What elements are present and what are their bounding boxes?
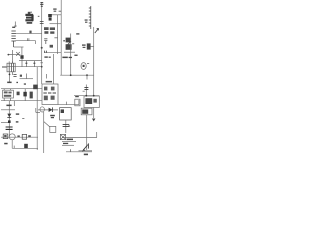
- small marks: [17, 135, 19, 137]
- junction on V1: [41, 47, 43, 49]
- wire left chain lower: [8, 101, 10, 137]
- wire V9: [86, 115, 88, 150]
- components between buses: [17, 92, 20, 96]
- wire H top small a: [49, 14, 61, 16]
- wire H-e: [14, 46, 24, 48]
- tick on V3: [59, 10, 62, 12]
- box: [22, 134, 26, 139]
- label near connector: [85, 19, 88, 22]
- dark blob component above bus: [33, 85, 38, 90]
- wire bus H-l: [1, 100, 42, 102]
- tick right end H-o: [13, 101, 15, 106]
- wire mid bus V6: [36, 67, 38, 150]
- capacitor C5 below box: [63, 124, 70, 126]
- wire H-t: [62, 141, 76, 143]
- wire V3: [60, 0, 62, 75]
- label under diode row: [50, 115, 55, 118]
- relay box K1: [3, 90, 14, 98]
- node terminal top of V1: [40, 3, 43, 7]
- component cluster top middle: label: [53, 8, 56, 11]
- tick to V2: [54, 37, 57, 39]
- bottom-left component row: box: [3, 134, 8, 139]
- box U4 mid right: [60, 108, 72, 120]
- wire stub V11: [21, 47, 23, 55]
- wire H-h: [20, 78, 34, 80]
- wire fuse line: [13, 54, 21, 56]
- SCR arrow bottom right: [82, 145, 87, 152]
- wire H winding bottom: [16, 41, 36, 44]
- wire H-j: [44, 52, 61, 54]
- wire H top small b: [50, 23, 62, 25]
- label near top-left: [14, 22, 17, 28]
- wire corner bottom right: [96, 132, 98, 138]
- wire below Q1: [64, 51, 75, 53]
- tick on H-h: [26, 74, 28, 79]
- resistor mark: [50, 45, 53, 48]
- wire Q2 to bus: [91, 46, 94, 48]
- label text mid right: [62, 55, 77, 59]
- small box R10: [50, 126, 56, 132]
- label T1: [12, 27, 15, 28]
- wire upper mains line: [19, 60, 42, 62]
- right box U2: [84, 96, 99, 108]
- connector J1 hatched line: [90, 6, 92, 29]
- small box left of U2: [75, 99, 80, 106]
- capacitor ticks between mains lines: [22, 61, 34, 67]
- ground arrow on V5 lower: [92, 119, 95, 122]
- wire main left bus V1: [41, 2, 43, 84]
- wire mains bus H-g: [2, 66, 42, 68]
- wire H-o: [1, 109, 15, 111]
- wire diode row H-p: [38, 109, 58, 111]
- junction blob: [8, 120, 11, 123]
- circle component on diode row: [40, 107, 44, 112]
- wire H-n: [58, 104, 79, 106]
- switch S1 X mark: [16, 52, 20, 56]
- photocoupler circle: [81, 63, 86, 70]
- label rows: [63, 139, 73, 145]
- tick left: [22, 117, 24, 119]
- transistor Q1 emitter stroke: [66, 41, 71, 46]
- diode D1 top middle: [48, 14, 52, 21]
- wire corner right of H10: [78, 100, 80, 105]
- wire right bus V5: [93, 27, 95, 96]
- transistor cluster Q1: [66, 38, 72, 50]
- node tick right of Q1: [72, 43, 74, 45]
- wire bottom right H-s: [62, 137, 97, 139]
- wire right bus V5 lower: [93, 108, 95, 119]
- arrow B+ top right: [95, 28, 99, 33]
- wire fuse line left: [8, 50, 13, 63]
- wire V2 lower: [53, 54, 55, 84]
- IC label: [46, 81, 52, 83]
- node dot top: [31, 12, 32, 13]
- diode chain left column: label: [6, 105, 19, 123]
- wire H-u: [62, 144, 74, 146]
- wire right bus H-i: [60, 74, 93, 76]
- connector CN1 box: [7, 63, 15, 72]
- capacitor tick on winding bottom line: [28, 38, 29, 41]
- winding L1 stack: [11, 31, 15, 47]
- box U3 below: [81, 108, 92, 115]
- transformer T1 dense label block: [25, 12, 33, 24]
- capacitor C3 inside cluster: [44, 39, 47, 44]
- component on H-v: [24, 144, 28, 148]
- wire V16: [11, 140, 13, 148]
- label GND: [4, 143, 7, 145]
- wire bottom row H-r: [1, 136, 38, 138]
- transistor Q2 right: [87, 43, 91, 49]
- resistor at left end of H-j: [45, 51, 47, 53]
- wire bus H-k: [1, 88, 42, 90]
- wire V4: [70, 60, 72, 75]
- capacitor C1 on V1: [40, 22, 44, 24]
- wire stub right of V1 top: [36, 108, 40, 112]
- label text mid left of V2: [44, 56, 50, 57]
- tick on V2 lower: [46, 74, 48, 79]
- labels above bus H-k: [7, 82, 26, 85]
- label below: [84, 154, 88, 156]
- capacitor C6: [6, 127, 13, 129]
- wire H-q: [1, 121, 9, 123]
- text cluster B3: [44, 27, 55, 34]
- wire V8: [43, 112, 45, 153]
- cap above U2: [85, 85, 87, 96]
- bottom right small box with X: [60, 134, 65, 139]
- wire bus H-m: [74, 95, 99, 97]
- wire left chain upper: [9, 72, 11, 82]
- cap C2 right of left chain: [13, 75, 16, 77]
- circle lamp: [9, 134, 15, 140]
- wire H-w: [66, 151, 92, 153]
- plug P1 dark block: [20, 55, 23, 59]
- wire V2 upper: [57, 15, 59, 55]
- IC inner marks: [43, 87, 56, 101]
- diode D6: [49, 108, 53, 112]
- junction dots on H-i: [70, 74, 72, 76]
- IC box U1: [42, 84, 58, 105]
- diode D5: [7, 114, 11, 118]
- wire relay leads: [4, 89, 10, 101]
- wire cap branch V13: [65, 120, 67, 133]
- wire H winding top: [16, 33, 42, 35]
- node tick on H-n: [66, 102, 68, 105]
- resistor blob on winding top line: [29, 31, 31, 34]
- wire H-v: [12, 147, 38, 149]
- junction tick on H-w: [70, 149, 72, 152]
